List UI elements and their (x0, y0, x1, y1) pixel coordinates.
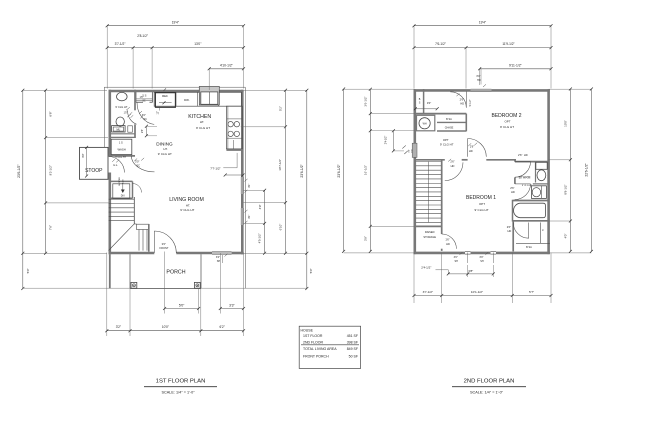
window W6 bottom (491, 251, 497, 253)
storage door D9 (442, 234, 457, 249)
svg-text:HT.: HT. (200, 120, 205, 124)
plan1 top dim row 19-4 (107, 25, 243, 27)
svg-text:HD: HD (446, 242, 450, 246)
svg-text:B SA: B SA (526, 246, 532, 249)
shelf room B SA (437, 121, 466, 123)
bath wall vertical (514, 160, 516, 162)
svg-text:B SA: B SA (446, 118, 452, 121)
svg-text:SH: SH (480, 260, 484, 263)
svg-text:4'0": 4'0" (564, 234, 568, 239)
plan1 left wall (109, 90, 112, 157)
plan1 top dim row2 (107, 47, 243, 49)
svg-text:PORCH: PORCH (166, 270, 185, 276)
svg-text:SCALE: 1/4" = 1'-0": SCALE: 1/4" = 1'-0" (161, 390, 195, 394)
svg-text:4'0": 4'0" (81, 153, 85, 158)
svg-text:7'7-1/2": 7'7-1/2" (210, 166, 220, 170)
kitchen closet (135, 92, 137, 103)
svg-text:SC: SC (143, 118, 147, 121)
plan1 bottom extension lines (106, 253, 108, 337)
plan1 porch dim 3-3 (220, 308, 243, 310)
svg-text:9' CLG HT: 9' CLG HT (474, 208, 488, 212)
svg-text:MU: MU (117, 129, 121, 132)
svg-text:HD: HD (477, 79, 481, 82)
wash closet fixtures (111, 139, 132, 154)
plan1 left outer dim 23-6-1/2 (22, 90, 24, 288)
plan2 top dim 19-4 (414, 25, 551, 27)
toilet plan2 bowl (537, 170, 546, 181)
svg-text:10'0": 10'0" (162, 325, 169, 329)
stair diagonal (109, 224, 135, 251)
bedroom2 door D6 (465, 92, 467, 108)
svg-text:SC: SC (142, 101, 146, 103)
window W4 label (480, 69, 482, 85)
area table (299, 326, 360, 368)
plan1 right outer dim 23-6-1/2 (306, 90, 308, 288)
porch post B2 (194, 282, 200, 288)
plan1 right dim window spacing (264, 190, 266, 253)
svg-text:1'6": 1'6" (445, 238, 449, 242)
plan2 window dims (448, 273, 493, 275)
svg-text:SLOPED: SLOPED (119, 177, 121, 186)
svg-text:3'0": 3'0" (427, 101, 431, 105)
plan2 exterior walls (414, 89, 471, 92)
hall bottom wall (414, 113, 466, 115)
plan2 left wall (413, 89, 416, 254)
svg-text:19'4": 19'4" (172, 21, 180, 25)
svg-text:2ND FLOOR PLAN: 2ND FLOOR PLAN (464, 379, 515, 385)
closet dim 3-0 (415, 108, 437, 110)
plan2 left outer dim 23-6-1/2 (343, 89, 345, 251)
svg-text:6'8": 6'8" (49, 111, 53, 116)
dining door D3 arc (131, 156, 154, 172)
svg-text:19'4": 19'4" (479, 21, 487, 25)
svg-text:12": 12" (156, 111, 159, 115)
window labels right wall 4-1 (245, 179, 248, 182)
svg-text:3'3": 3'3" (229, 303, 235, 307)
svg-text:HD: HD (524, 153, 528, 157)
plan1 sloped closet (109, 180, 133, 182)
svg-text:9' CLG HT: 9' CLG HT (522, 185, 533, 187)
bath small door jamb (128, 126, 133, 132)
svg-text:5'0": 5'0" (309, 268, 313, 273)
plan1 left inner dim column (45, 90, 47, 253)
svg-text:3'9": 3'9" (364, 236, 368, 241)
toilet nook wall (535, 162, 537, 183)
svg-text:1ST FLOOR: 1ST FLOOR (303, 334, 323, 338)
svg-text:5'2": 5'2" (279, 106, 283, 111)
svg-text:398 SF: 398 SF (347, 341, 358, 345)
svg-text:7'6": 7'6" (49, 225, 53, 230)
plan2 small dim 2-4-1/2 left (370, 130, 415, 132)
svg-text:H.L.: H.L. (113, 163, 118, 167)
svg-text:2'6": 2'6" (450, 160, 454, 164)
door D1 label arrows (130, 112, 133, 115)
svg-text:2'6": 2'6" (507, 225, 511, 229)
svg-text:REF.: REF. (162, 94, 168, 98)
svg-text:23'6-1/2": 23'6-1/2" (300, 164, 304, 178)
window W1 bottom wall living room (212, 251, 232, 253)
tub (513, 200, 549, 202)
plan2 top dim 9-11-1/2 (480, 68, 551, 70)
svg-text:9' CLG HT: 9' CLG HT (196, 126, 210, 130)
plan1 left wall extension to porch line (109, 254, 111, 288)
kitchen top counter (154, 92, 241, 106)
stair lower winders (137, 224, 149, 229)
svg-text:4'1": 4'1" (248, 215, 251, 219)
window W3 right wall (240, 208, 242, 225)
bed1 door D8 (445, 162, 463, 180)
front door D5 (153, 231, 155, 253)
svg-text:4'9": 4'9" (258, 204, 262, 209)
svg-text:2ND FLOOR: 2ND FLOOR (303, 341, 324, 345)
toilet swing arrows (126, 107, 130, 110)
svg-text:OPT: OPT (479, 202, 485, 206)
plan2 left inner dim (369, 89, 371, 251)
svg-text:3'6-1/2": 3'6-1/2" (364, 96, 368, 106)
plan2 bottom wall (414, 252, 465, 255)
closet door arc small (133, 184, 142, 193)
svg-text:3'0": 3'0" (162, 242, 166, 246)
svg-text:DW.: DW. (184, 98, 190, 102)
plan1 right extension lines (244, 89, 307, 91)
bath tub/lavatory oval (117, 92, 128, 100)
svg-text:3'8": 3'8" (468, 269, 473, 273)
svg-text:6'2": 6'2" (220, 325, 225, 329)
plan1 bottom dim row (107, 330, 244, 332)
svg-text:10'1-1/2": 10'1-1/2" (471, 290, 483, 294)
svg-text:3'0": 3'0" (216, 256, 220, 259)
plan2 left extension lines (344, 88, 415, 90)
toilet (116, 117, 124, 126)
svg-text:RAISED: RAISED (425, 230, 435, 234)
svg-text:3'2": 3'2" (116, 325, 121, 329)
svg-text:BEDROOM 1: BEDROOM 1 (466, 195, 496, 201)
side entry door D4 arc (108, 157, 124, 173)
svg-text:9'11-1/2": 9'11-1/2" (509, 64, 523, 68)
svg-text:FRONT PORCH: FRONT PORCH (303, 355, 329, 359)
svg-text:2'6": 2'6" (470, 145, 474, 149)
svg-text:6'10": 6'10" (279, 224, 283, 231)
svg-text:2'4-1/2": 2'4-1/2" (421, 266, 431, 270)
svg-text:BTHRM: BTHRM (519, 176, 531, 180)
window W4 top wall (471, 88, 492, 90)
plan1 bathroom walls (134, 90, 136, 111)
svg-text:2'8-1/2": 2'8-1/2" (137, 34, 148, 38)
counter end half wall (226, 149, 242, 151)
refrigerator small dim 12 (158, 107, 160, 110)
svg-text:11'9-1/2": 11'9-1/2" (502, 42, 514, 46)
plan2 bottom dim row (414, 295, 551, 297)
svg-text:WH: WH (423, 122, 427, 125)
bath sink (532, 186, 547, 199)
svg-text:50 SF: 50 SF (349, 355, 358, 359)
svg-text:10'0": 10'0" (564, 120, 568, 127)
stoop (80, 147, 109, 179)
svg-text:10'7-1/2": 10'7-1/2" (278, 159, 282, 171)
svg-text:5'-1/2": 5'-1/2" (469, 99, 472, 106)
window W2 right wall (240, 177, 242, 194)
closet door D12 (528, 223, 530, 239)
plan2 right extension lines (549, 88, 592, 90)
svg-text:4'10-1/2": 4'10-1/2" (220, 64, 234, 68)
svg-text:3'0": 3'0" (479, 256, 483, 259)
bathroom top wall (515, 161, 549, 163)
svg-text:1ST FLOOR PLAN: 1ST FLOOR PLAN (156, 379, 206, 385)
stoop dim 4-0 (86, 147, 88, 176)
svg-text:OPT: OPT (443, 138, 449, 142)
plan2 top dim row2 (414, 47, 551, 49)
plan1 porch dim 5-0 (165, 308, 199, 310)
vent arrow on wall (164, 88, 167, 91)
porch outline (129, 254, 131, 288)
svg-text:16'-1/2": 16'-1/2" (364, 165, 368, 175)
stair main flight (109, 198, 135, 200)
plan1 left extension lines (23, 89, 107, 91)
range / oven (199, 87, 219, 106)
left wall flue thickening (412, 143, 417, 157)
chase (437, 130, 466, 132)
svg-text:1 S: 1 S (119, 140, 123, 144)
plan1 top dim extension lines (106, 26, 108, 89)
plan1 right dim middle column (285, 90, 287, 253)
svg-text:13'0": 13'0" (194, 42, 201, 46)
raised storage (414, 225, 442, 227)
vanity MU (112, 126, 126, 132)
plan2 top dim extension lines (413, 26, 415, 89)
counter width dim (225, 174, 243, 176)
bath door D1 arc (128, 110, 137, 124)
svg-text:23'6-1/2": 23'6-1/2" (337, 164, 341, 178)
svg-text:HD: HD (508, 229, 512, 233)
svg-text:4'5-1/2": 4'5-1/2" (258, 233, 262, 243)
svg-text:9' CLG HT: 9' CLG HT (158, 152, 172, 156)
svg-text:9' CLG HT: 9' CLG HT (500, 125, 514, 129)
stair wall plan2 (441, 160, 443, 234)
kitchen side counter with cooktop (226, 106, 242, 149)
svg-text:LIVING ROOM: LIVING ROOM (169, 197, 204, 203)
water heater room (417, 115, 435, 131)
svg-text:HD: HD (469, 149, 473, 153)
svg-text:TOTAL LIVING AREA: TOTAL LIVING AREA (303, 347, 337, 351)
svg-text:9' CLG HT: 9' CLG HT (440, 143, 454, 147)
porch post B1 (131, 282, 137, 288)
svg-text:2'6": 2'6" (518, 153, 522, 157)
svg-text:5'7": 5'7" (529, 290, 534, 294)
closet bottom right (540, 223, 542, 244)
svg-text:DN: DN (121, 195, 125, 198)
svg-text:HT.: HT. (163, 147, 168, 151)
plan2 bottom extension lines (413, 253, 415, 303)
svg-text:3'0": 3'0" (454, 256, 458, 259)
window W5 W6 labels (467, 253, 469, 264)
svg-text:FRONT: FRONT (160, 246, 169, 250)
plan1 right wall with windows (241, 90, 244, 177)
svg-text:9'2-1/2": 9'2-1/2" (49, 165, 53, 175)
mid wall bed1/bed2 (414, 159, 445, 161)
plan2 right wall (547, 89, 550, 254)
svg-text:3'7-1/2": 3'7-1/2" (423, 290, 433, 294)
kitchen entry door D2 arc (137, 102, 154, 124)
svg-text:HD: HD (460, 102, 464, 106)
bath door D10 (515, 161, 531, 163)
dim 2-6 vertical small (145, 126, 147, 136)
svg-text:9' CLG HT: 9' CLG HT (115, 105, 128, 109)
bed2 door D7 (467, 139, 469, 157)
refrigerator REF (155, 93, 175, 108)
svg-text:2'4-1/2": 2'4-1/2" (385, 136, 388, 145)
plan2 right inner dim (569, 89, 571, 251)
svg-text:HT.: HT. (186, 203, 191, 207)
svg-text:5'0": 5'0" (179, 303, 185, 307)
flue arrows (402, 145, 406, 148)
svg-text:HD: HD (451, 164, 455, 168)
svg-text:7'6-1/2": 7'6-1/2" (435, 42, 446, 46)
window W1 label 3-0 SH (222, 255, 224, 263)
window W5 bottom (465, 251, 471, 253)
svg-text:DINING: DINING (156, 142, 173, 147)
svg-text:2'6": 2'6" (460, 97, 464, 101)
plan2 closet top-left (423, 89, 425, 114)
svg-text:451 SF: 451 SF (347, 334, 358, 338)
svg-text:9' CLG HT: 9' CLG HT (180, 208, 194, 212)
plan1 top dim row3 4-10-1/2 (209, 68, 243, 70)
svg-text:SH: SH (454, 260, 458, 263)
svg-text:CHASE: CHASE (445, 126, 454, 129)
svg-text:HD: HD (511, 190, 515, 194)
plan2 right outer dim 22-6-1/2 (590, 89, 592, 251)
svg-text:OPT: OPT (505, 120, 511, 124)
svg-text:STOOP: STOOP (85, 168, 103, 174)
sloped ceiling closet interior (113, 184, 130, 199)
plan1 roof eave lines (104, 86, 245, 88)
svg-text:1'0": 1'0" (124, 113, 128, 115)
svg-text:8'8-1/2": 8'8-1/2" (564, 184, 568, 194)
svg-text:SH: SH (217, 260, 221, 263)
plan 1 exterior walls (109, 90, 244, 93)
svg-text:4'1": 4'1" (248, 184, 251, 188)
bath door D11 (515, 183, 531, 185)
svg-text:SC: SC (136, 163, 140, 167)
svg-text:STORAGE: STORAGE (423, 235, 436, 239)
toilet plan2 tank (536, 162, 547, 169)
plan1 wash closet wall (109, 155, 135, 157)
svg-text:5'0": 5'0" (26, 268, 30, 273)
svg-text:849 SF: 849 SF (347, 347, 358, 351)
svg-text:HOUSE: HOUSE (301, 328, 314, 332)
svg-text:23'6-1/2": 23'6-1/2" (17, 164, 21, 178)
svg-text:22'6-1/2": 22'6-1/2" (585, 163, 589, 177)
svg-text:HD: HD (411, 149, 413, 153)
svg-text:BEDROOM 2: BEDROOM 2 (491, 113, 521, 119)
svg-text:2'6": 2'6" (140, 129, 144, 133)
bottom wall tub room (513, 220, 549, 222)
svg-text:SCALE: 1/4" = 1'-0": SCALE: 1/4" = 1'-0" (470, 390, 504, 394)
svg-text:1'6": 1'6" (140, 97, 144, 99)
svg-text:WASH: WASH (117, 148, 125, 152)
svg-text:3'7-1/2": 3'7-1/2" (115, 42, 126, 46)
stairs plan2 treads (416, 161, 441, 163)
svg-text:2'6": 2'6" (510, 186, 514, 190)
